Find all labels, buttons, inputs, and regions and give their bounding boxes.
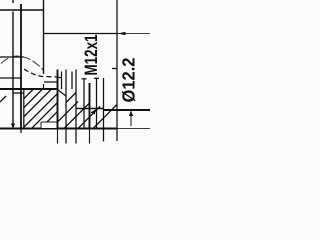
dimension line V0: [12, 12, 14, 125]
hatch diagonal left mark: [0, 96, 6, 102]
upper right edge H2: [44, 33, 118, 35]
right body edge V3 upper: [43, 0, 45, 74]
hatch diagonal j6: [41, 112, 58, 129]
right body edge V3 lower: [43, 84, 45, 89]
bore bottom edge H4: [0, 77, 22, 79]
thread wall V4: [57, 70, 59, 129]
dashed arc A: [1, 56, 44, 71]
right flange face H7b: [104, 109, 151, 111]
svg-text:M12x1: M12x1: [81, 35, 101, 76]
dimension line H2 right thin: [117, 33, 150, 35]
thread relief notch (white): [41, 122, 57, 128]
left shelf edge H3: [0, 56, 24, 58]
arrowhead leader dot: [91, 109, 98, 115]
arrowhead on dimension line at x117: [118, 32, 126, 35]
hatch diagonal j1: [24, 90, 33, 99]
thread crossbar dash: [58, 77, 62, 79]
thread line V8: [75, 70, 77, 129]
center line V0 dash: [12, 0, 14, 3]
hatch diagonal D: [51, 102, 78, 129]
thread line V5: [61, 72, 63, 90]
hatch diagonal j4: [24, 94, 58, 128]
top face edge H1: [0, 9, 44, 11]
svg-text:Ø12.2: Ø12.2: [119, 57, 139, 102]
extension line V11: [96, 79, 98, 129]
hole bottom face H7a: [76, 108, 104, 110]
extension line V13: [116, 0, 118, 129]
tick near extension line: [112, 68, 117, 70]
thread line V12: [103, 78, 105, 129]
chamfer diagonal: [58, 90, 67, 97]
bottom face H8 right thin: [117, 128, 150, 130]
bore wall V2: [23, 89, 25, 128]
body top face H6a: [0, 88, 58, 90]
thread line V6: [65, 70, 67, 129]
tick below bottom V1b: [20, 130, 22, 134]
bottom face H8: [0, 127, 117, 129]
hatch diagonal j5: [32, 103, 58, 129]
body top face inner H6b: [13, 92, 24, 94]
hatch diagonal E: [64, 103, 90, 129]
serif cap V9: [82, 78, 87, 80]
hatch diagonal F: [78, 107, 100, 129]
dashed curve B: [24, 69, 57, 77]
hatch diagonal G: [93, 105, 117, 129]
hatch diagonal j3: [24, 90, 51, 117]
shelf edge H5: [44, 81, 58, 83]
cone diagonal: [66, 93, 76, 103]
stem edge V1: [20, 4, 22, 130]
extension line V9 (M12x1): [83, 79, 85, 128]
arrowhead down on V0: [11, 124, 15, 129]
thread line V7: [71, 72, 73, 90]
hatch diagonal j2: [24, 90, 42, 108]
serif cap V11: [94, 77, 99, 79]
thread wall V10: [89, 83, 91, 129]
arrow up at flange face: [129, 111, 133, 127]
